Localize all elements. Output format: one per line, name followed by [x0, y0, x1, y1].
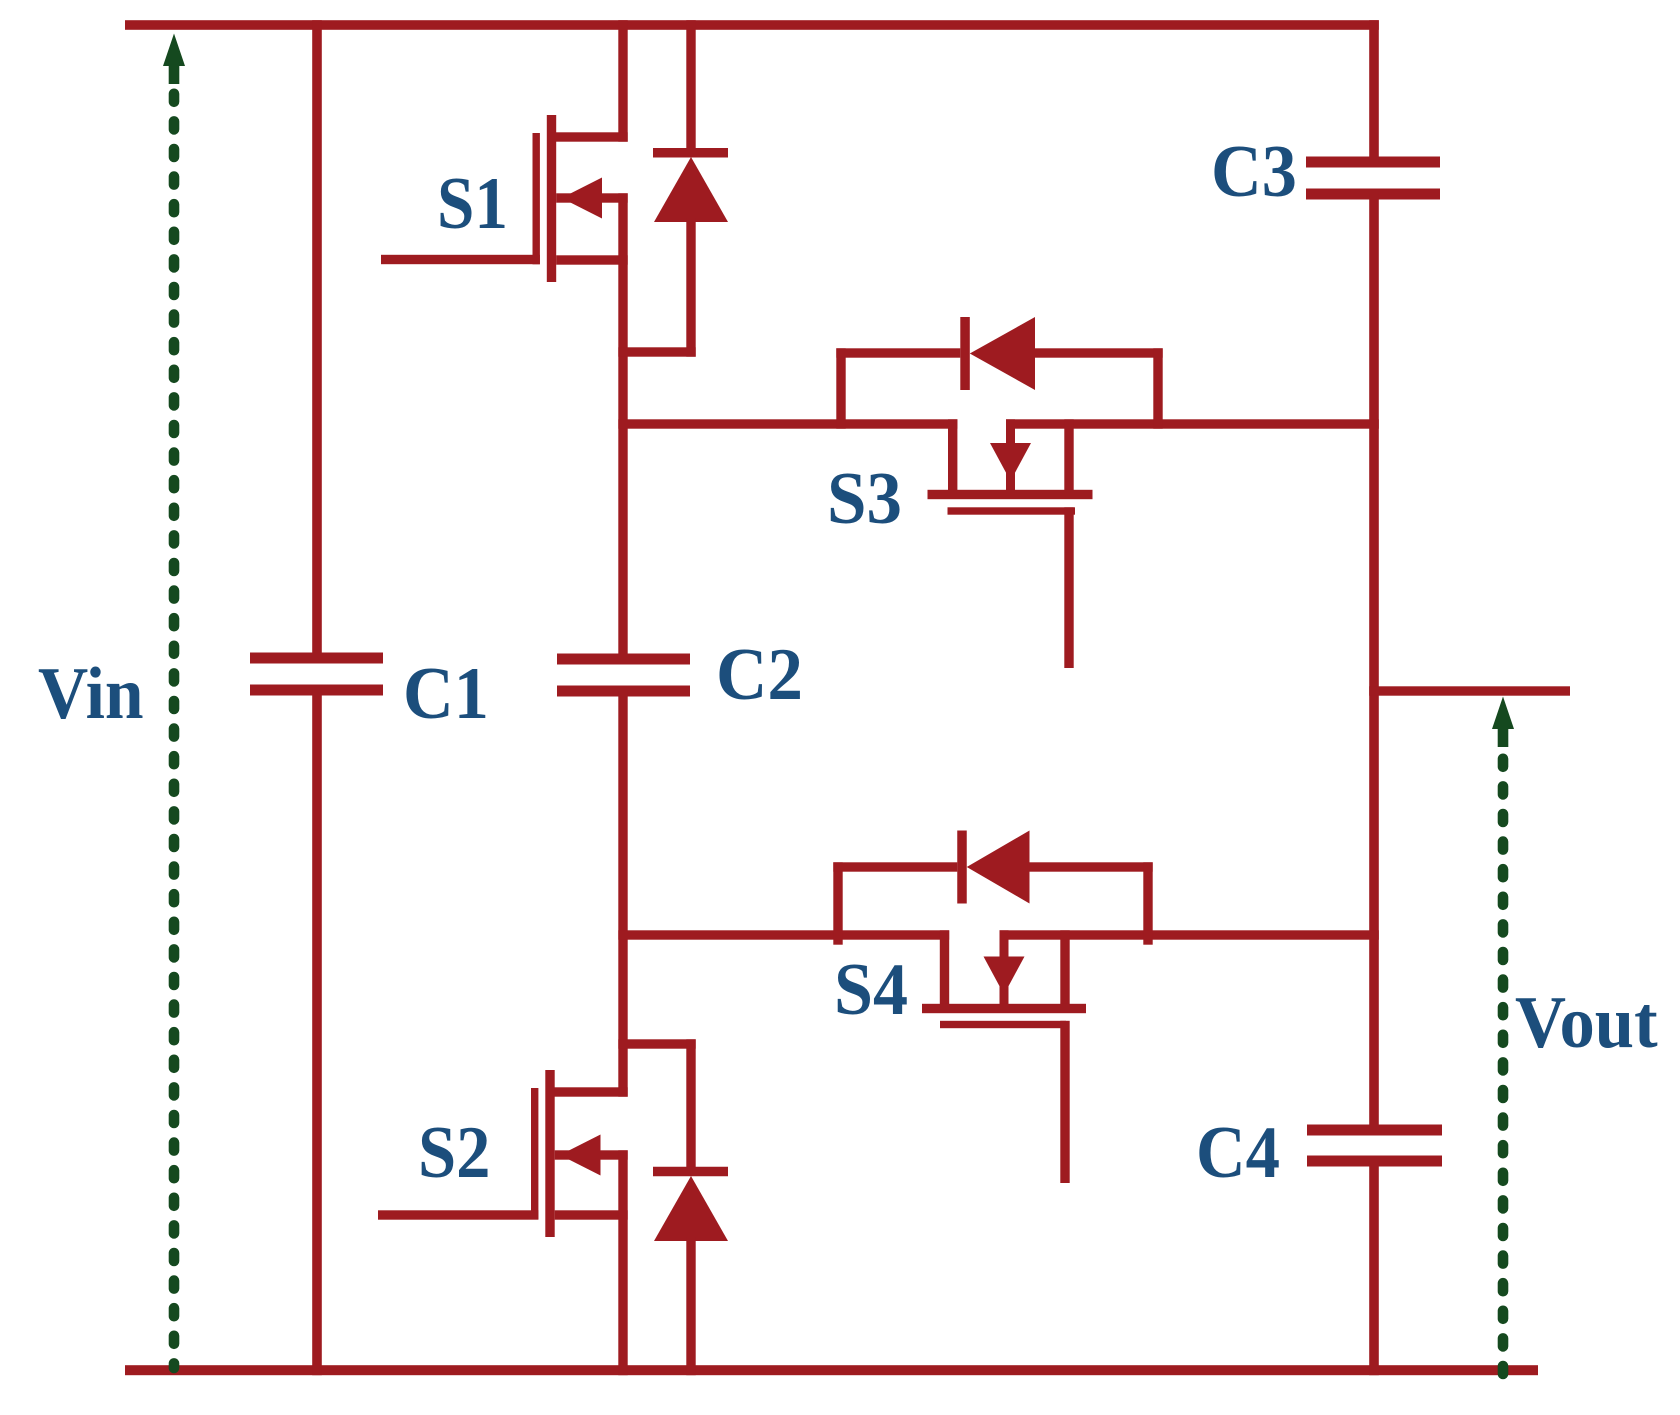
wire node column C2 to S2 drain [618, 691, 627, 1097]
diode D3 antiparallel diode of S3 [836, 348, 845, 428]
svg-text:S1: S1 [437, 163, 508, 245]
diode D2 body diode of S2 [686, 1039, 695, 1171]
diode D1 body diode of S1 [686, 20, 695, 153]
svg-text:C3: C3 [1211, 131, 1297, 213]
wire S1 drain from top rail [618, 20, 627, 142]
wire S2 source to bottom rail [618, 1150, 627, 1375]
wire S3 branch right [1006, 419, 1379, 428]
wire S4 branch right [1000, 930, 1379, 939]
capacitor C1 [250, 653, 383, 664]
wire right rail C3 to C4 [1369, 194, 1379, 1130]
capacitor C4 [1307, 1125, 1442, 1136]
svg-text:S3: S3 [827, 458, 902, 540]
svg-text:Vin: Vin [38, 653, 144, 735]
wire S2 drain diode stub [618, 1039, 695, 1048]
Vout dashed measurement line [1498, 759, 1509, 1378]
transistor S1 [381, 255, 540, 264]
svg-text:C4: C4 [1196, 1112, 1280, 1194]
capacitor C3 [1306, 157, 1440, 168]
wire output node stub [1369, 686, 1570, 695]
svg-text:C2: C2 [716, 634, 803, 716]
wire S3 branch left [618, 419, 957, 428]
wire left input branch lower [312, 691, 322, 1375]
svg-text:S2: S2 [418, 1112, 491, 1194]
transistor S4 [940, 930, 949, 1013]
wire S4 branch left [618, 930, 949, 939]
transistor S3 [948, 419, 957, 499]
Vin dashed measurement line [169, 94, 180, 1368]
wire left input branch upper [312, 20, 322, 659]
wire D1 anode to S1 source joint [618, 347, 695, 356]
diode D4 antiparallel diode of S4 [833, 862, 842, 944]
wire bottom rail [125, 1365, 1538, 1375]
Vout arrow head [1492, 697, 1514, 730]
wire top rail [125, 20, 1379, 30]
svg-text:S4: S4 [834, 949, 908, 1031]
capacitor C2 [557, 654, 690, 665]
svg-text:Vout: Vout [1515, 982, 1658, 1064]
wire S1 source node column [618, 193, 627, 659]
wire right rail top to C3 [1369, 20, 1379, 162]
svg-text:C1: C1 [403, 653, 489, 735]
transistor S2 [551, 1087, 628, 1096]
wire right rail C4 to bottom [1369, 1161, 1379, 1375]
Vin arrow head [163, 34, 185, 67]
